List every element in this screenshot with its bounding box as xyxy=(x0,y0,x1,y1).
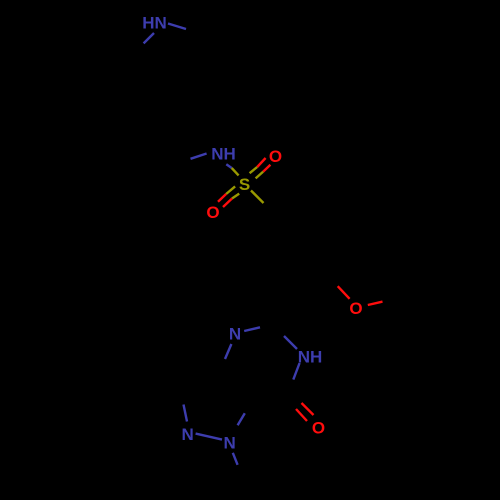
svg-text:N: N xyxy=(182,425,194,444)
svg-text:NH: NH xyxy=(298,348,323,367)
svg-text:O: O xyxy=(312,419,325,438)
svg-text:N: N xyxy=(229,325,241,344)
svg-text:HN: HN xyxy=(142,14,167,33)
svg-text:NH: NH xyxy=(211,145,236,164)
svg-text:N: N xyxy=(224,434,236,453)
svg-text:O: O xyxy=(349,299,362,318)
svg-text:O: O xyxy=(269,147,282,166)
svg-text:O: O xyxy=(206,203,219,222)
svg-text:S: S xyxy=(239,175,250,194)
